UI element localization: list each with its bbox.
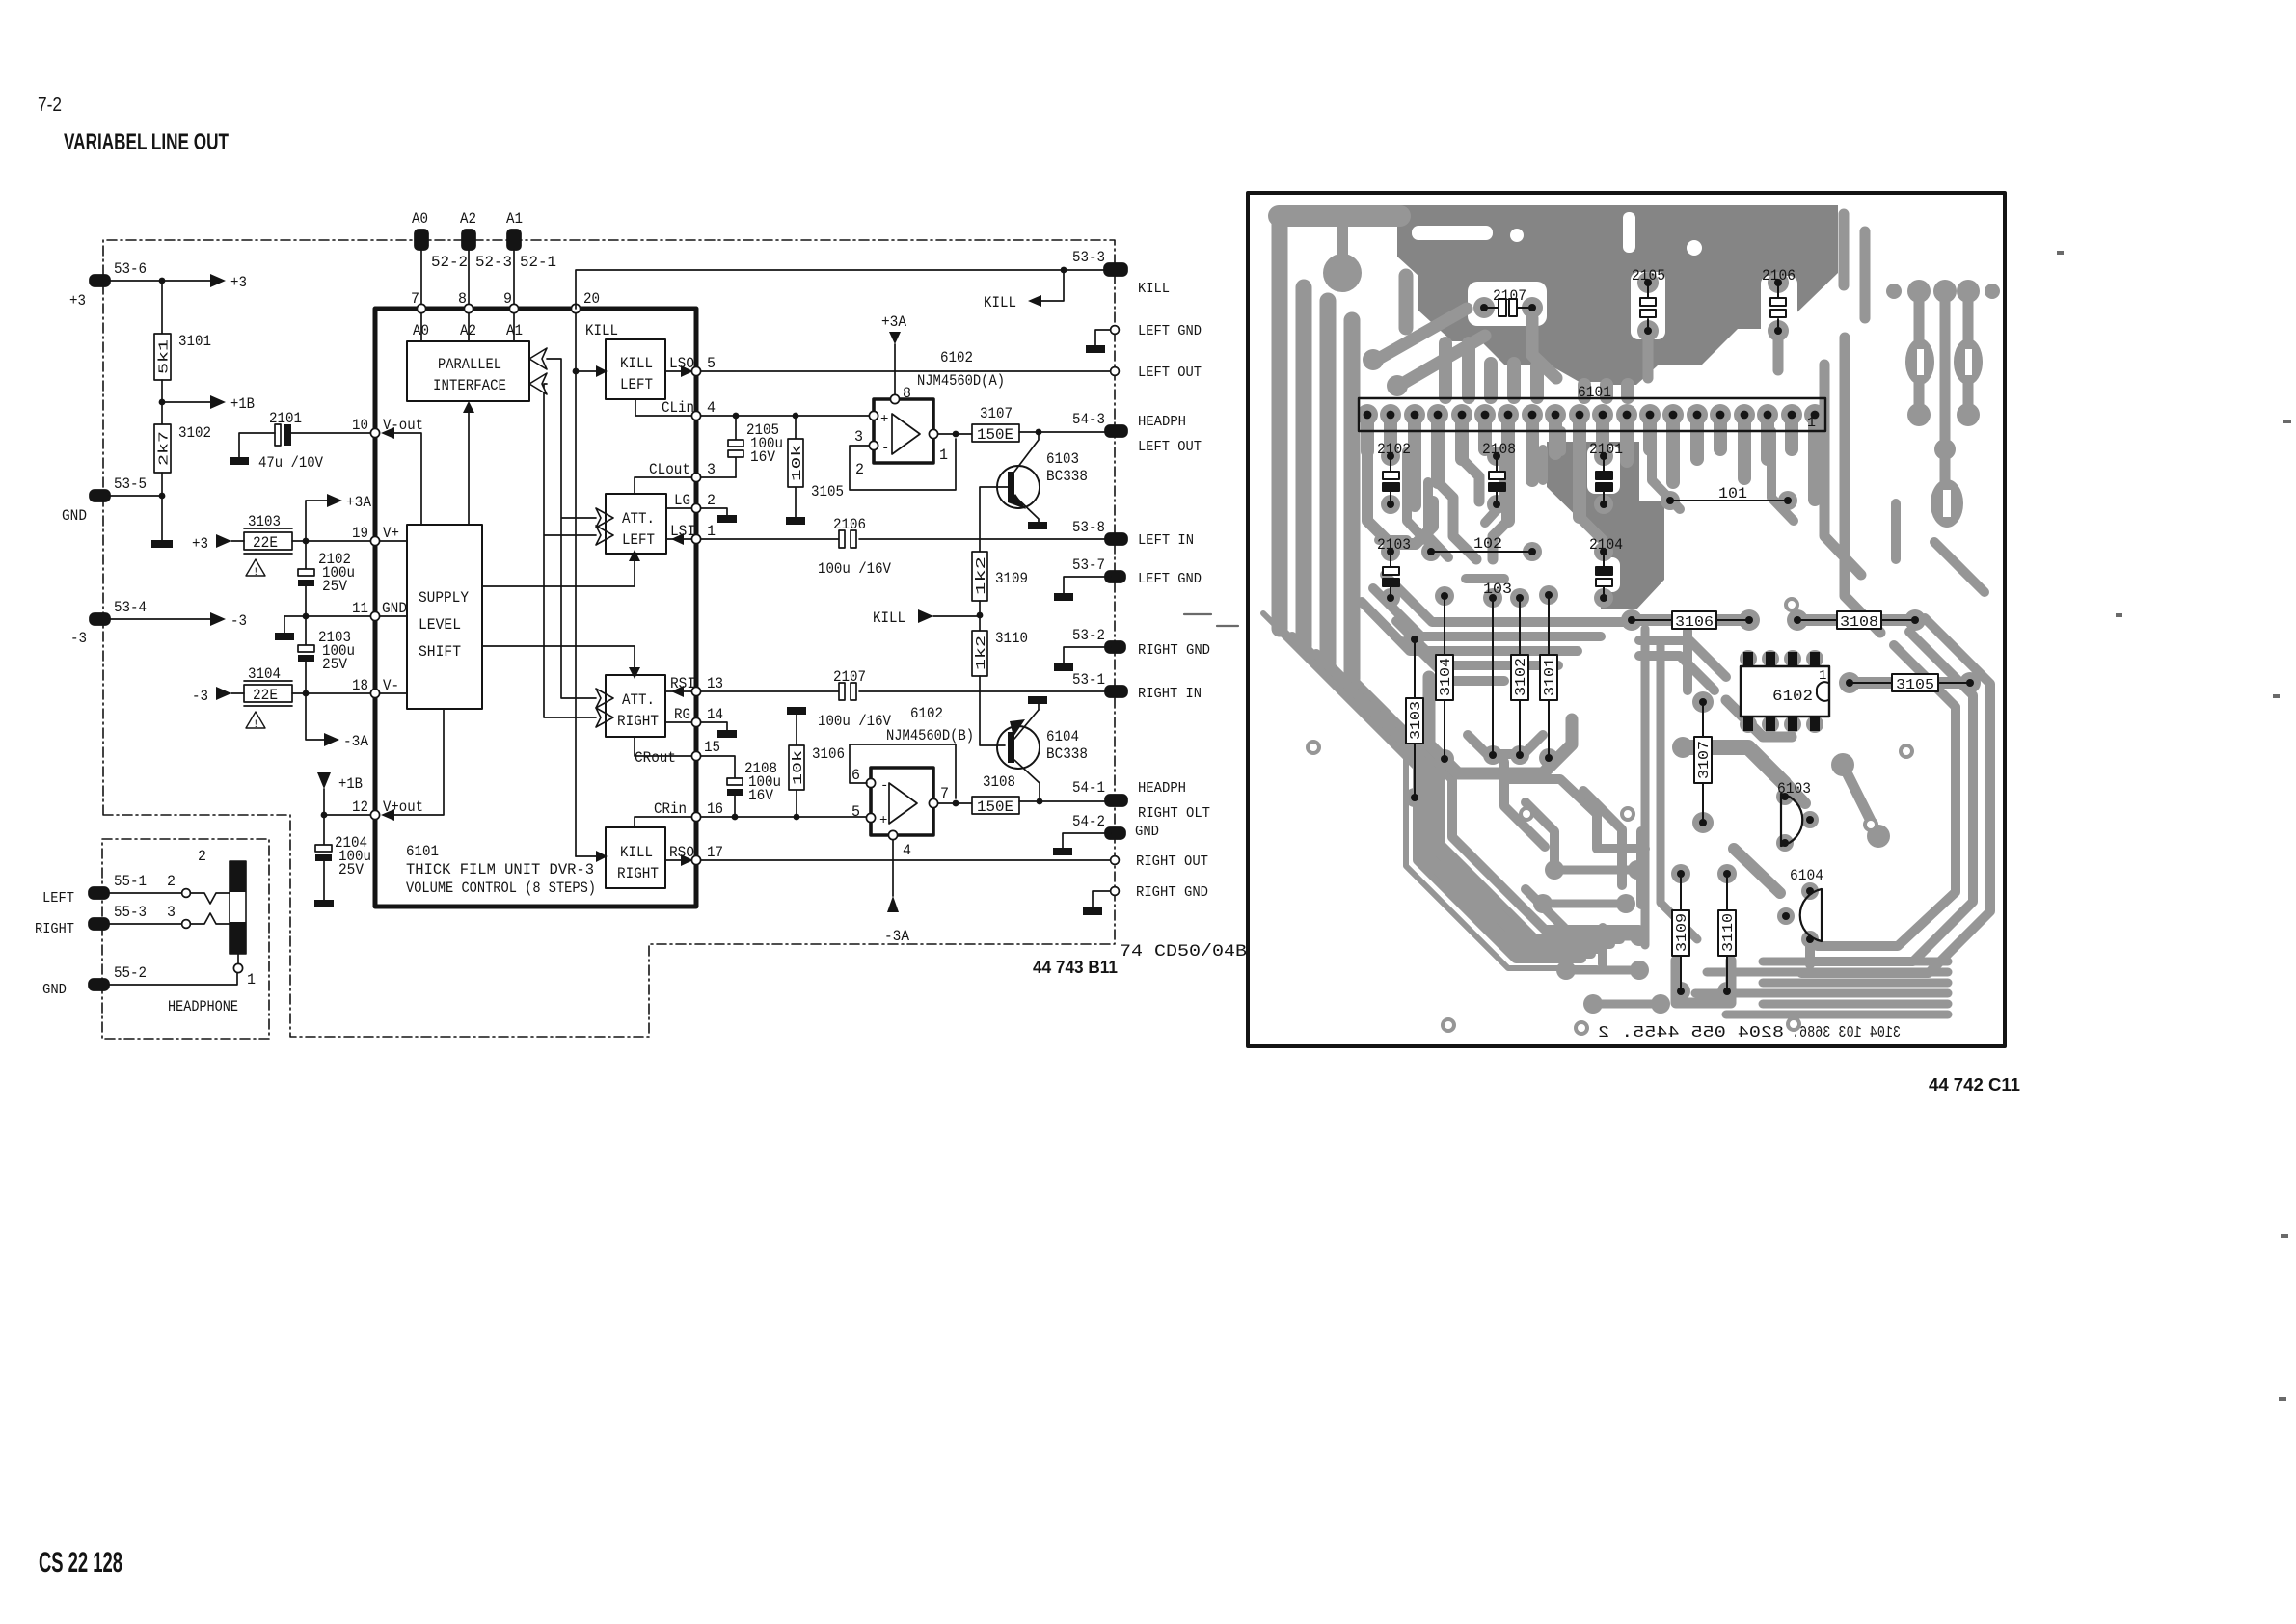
svg-text:+3A: +3A <box>346 494 372 511</box>
svg-text:3106: 3106 <box>1675 614 1714 631</box>
wire: pcb top band <box>1279 205 1400 227</box>
svg-text:HEADPH: HEADPH <box>1138 415 1186 430</box>
wire SLS to att right <box>482 646 640 679</box>
IC 6101 designator text <box>406 843 596 897</box>
connector pad 54-3 <box>1072 411 1127 437</box>
wire: pcb bottom hatch <box>1695 961 1948 1015</box>
capacitor 2102 <box>298 541 355 616</box>
connector pad 53-2 with ground <box>1054 627 1125 671</box>
capacitor 2108 <box>701 756 781 817</box>
wire 2101 to ground <box>239 433 275 457</box>
resistor 3105 (10k) <box>788 416 844 517</box>
svg-text:3104: 3104 <box>1438 658 1454 696</box>
parallel interface box <box>407 341 529 401</box>
svg-text:44 743 B11: 44 743 B11 <box>1033 958 1118 977</box>
svg-text:102: 102 <box>1473 535 1502 553</box>
pin 13 RSI <box>665 675 723 697</box>
svg-text:12: 12 <box>352 798 368 816</box>
op-amp 6102A <box>854 349 1005 478</box>
net label HEADPH LEFT OUT <box>1138 415 1202 455</box>
svg-text:LEFT OUT: LEFT OUT <box>1138 365 1202 381</box>
ground <box>314 900 334 907</box>
svg-text:53-7: 53-7 <box>1072 556 1105 574</box>
svg-text:V+: V+ <box>383 525 399 542</box>
svg-text:+3: +3 <box>230 274 247 291</box>
pin 14 RG <box>666 706 723 727</box>
wire: pcb staircase to 2107 <box>1375 309 1467 361</box>
svg-text:6102: 6102 <box>940 349 973 366</box>
wire: pcb left edge thin <box>1263 613 1597 968</box>
svg-text:1: 1 <box>247 971 256 988</box>
svg-text:8: 8 <box>903 385 911 402</box>
svg-text:52-2: 52-2 <box>431 254 468 271</box>
svg-text:6103: 6103 <box>1046 450 1079 468</box>
svg-text:25V: 25V <box>338 861 365 879</box>
svg-text:5: 5 <box>707 355 716 372</box>
svg-text:3102: 3102 <box>178 424 211 442</box>
capacitor 2106 <box>818 516 892 578</box>
svg-text:52-1: 52-1 <box>520 254 556 271</box>
resistor 3102 <box>154 424 211 473</box>
transistor 6103 <box>980 432 1088 552</box>
svg-text:-3A: -3A <box>884 928 910 945</box>
att right box <box>606 675 665 737</box>
svg-text:GND: GND <box>62 507 87 525</box>
wire: pcb dark plane top <box>1397 205 1838 385</box>
headphone dash-dot box <box>102 839 269 1039</box>
svg-text:KILL: KILL <box>1138 282 1170 297</box>
wire junction to resistor 3101 <box>161 281 163 334</box>
ground above 6104 <box>1028 696 1047 710</box>
svg-text:55-1: 55-1 <box>114 873 147 890</box>
transistor 6104 (pcb) <box>1782 867 1823 943</box>
pin RIGHT GND with ground <box>1083 885 1208 915</box>
svg-text:CS 22 128: CS 22 128 <box>39 1547 122 1579</box>
wire: pcb left stripe 3 <box>1320 301 1337 663</box>
svg-text:2: 2 <box>198 848 206 865</box>
ground <box>786 517 805 525</box>
capacitor 2104 <box>315 815 371 900</box>
svg-text:6101: 6101 <box>406 843 439 860</box>
wire op-amp A feedback <box>850 431 959 490</box>
svg-text:7: 7 <box>940 785 949 802</box>
supply level shift box <box>407 525 482 709</box>
wire op-amp B pin 4 to -3A <box>884 840 910 945</box>
wire LG to ground <box>701 508 727 515</box>
svg-text:1: 1 <box>707 523 716 540</box>
wire: pcb mirrored etch text <box>1598 1024 1901 1042</box>
wire: pcb 6101 pads row <box>1357 404 1825 425</box>
svg-text:BC338: BC338 <box>1046 745 1088 763</box>
wire: pcb q4 upper threads <box>1639 640 1726 677</box>
connector pad 53-1 <box>1072 671 1127 697</box>
svg-text:19: 19 <box>352 525 368 542</box>
svg-text:10k: 10k <box>791 750 806 785</box>
wire: pcb connector stubs <box>1367 415 1815 521</box>
resistor 3104 (22E fusible) <box>244 665 292 731</box>
svg-text:150E: 150E <box>977 426 1013 444</box>
pin 7 <box>411 290 429 341</box>
svg-text:3105: 3105 <box>811 483 844 501</box>
svg-text:3101: 3101 <box>178 333 211 350</box>
pin 4 CLin <box>635 399 716 420</box>
svg-text:17: 17 <box>707 844 723 861</box>
wire 55-1 to jack tip contact <box>108 873 230 904</box>
svg-text:100u /16V: 100u /16V <box>818 560 892 578</box>
wire: pcb mid right rings <box>1504 779 1645 849</box>
svg-text:2k7: 2k7 <box>157 431 173 466</box>
svg-text:53-5: 53-5 <box>114 475 147 493</box>
svg-text:3107: 3107 <box>980 405 1013 422</box>
pin LEFT OUT <box>1111 365 1202 381</box>
svg-text:RIGHT IN: RIGHT IN <box>1138 687 1202 702</box>
pin 3 CLout <box>635 461 716 494</box>
wire 53-6 to +3 arrow <box>109 274 247 291</box>
wire 55-2 to jack sleeve <box>109 973 237 985</box>
svg-text:100u /16V: 100u /16V <box>818 713 892 730</box>
svg-text:INTERFACE: INTERFACE <box>433 377 506 394</box>
svg-text:2: 2 <box>167 873 176 890</box>
connector pad 55-3 <box>35 904 147 937</box>
svg-text:47u /10V: 47u /10V <box>258 454 324 472</box>
svg-text:25V: 25V <box>322 656 348 673</box>
pin 12 V+out <box>352 709 444 821</box>
wire 3101 to +1B arrow <box>159 380 255 424</box>
wire: pcb dumbbells <box>1543 870 1661 1004</box>
svg-text:3110: 3110 <box>1720 913 1737 952</box>
capacitor 2107 <box>818 668 892 730</box>
ground <box>151 540 173 548</box>
wire SLS to att left <box>482 550 640 586</box>
svg-text:GND: GND <box>382 600 407 617</box>
svg-text:74 CD50/04B: 74 CD50/04B <box>1120 942 1247 961</box>
wire op-amp A output <box>938 433 972 435</box>
resistor 3109 (1k2) <box>972 552 1028 601</box>
svg-text:RIGHT OLT: RIGHT OLT <box>1138 806 1210 822</box>
svg-text:10k: 10k <box>790 445 805 481</box>
-3 arrow into 3104 <box>192 687 244 705</box>
wire: pcb q4 left verticals <box>1641 629 1650 945</box>
resistor 3107 (pcb) <box>1694 698 1713 826</box>
pin 11 GND <box>352 600 407 621</box>
svg-text:25V: 25V <box>322 578 348 595</box>
svg-text:3107: 3107 <box>1696 741 1713 779</box>
wire: pcb via holes <box>1308 599 1912 1034</box>
capacitor 2106 (pcb) <box>1762 267 1796 335</box>
pin 5 LSO <box>665 355 716 377</box>
svg-text:55-2: 55-2 <box>114 964 147 982</box>
svg-text:15: 15 <box>704 739 720 756</box>
wire link 102 (pcb) <box>1427 535 1536 555</box>
capacitor 2103 (pcb) <box>1377 536 1411 602</box>
svg-text:LG: LG <box>674 492 690 509</box>
PCB_GRAY <box>1263 205 2000 1042</box>
svg-text:LEFT GND: LEFT GND <box>1138 324 1202 339</box>
svg-text:LEFT OUT: LEFT OUT <box>1138 440 1202 455</box>
capacitor 2107 (pcb) <box>1480 287 1536 316</box>
capacitor 2108 (pcb) <box>1482 441 1516 508</box>
svg-text:!: ! <box>253 567 259 579</box>
svg-text:4: 4 <box>707 399 716 417</box>
pin 8 <box>458 290 476 341</box>
wire: pcb filler traces <box>1379 431 1985 964</box>
svg-text:LEFT: LEFT <box>42 891 74 907</box>
svg-text:1: 1 <box>939 447 948 464</box>
svg-text:RIGHT: RIGHT <box>617 713 659 730</box>
svg-text:-3: -3 <box>192 688 208 705</box>
pin 17 RSO <box>665 844 723 866</box>
resistor 3107 (150E) <box>972 405 1019 444</box>
svg-text:3105: 3105 <box>1896 677 1934 693</box>
svg-text:!: ! <box>253 719 259 731</box>
capacitor 2102 (pcb) <box>1377 441 1411 508</box>
wire 55-3 to jack ring contact <box>108 904 230 928</box>
wire LSO to LEFT OUT <box>701 370 1111 372</box>
thick film unit 6101 box <box>375 309 696 907</box>
svg-text:53-6: 53-6 <box>114 260 147 278</box>
connector pad 55-2 <box>42 964 147 998</box>
wire LSI to LEFT IN <box>701 538 1105 540</box>
PCB_BLACK <box>1359 267 2020 1095</box>
resistor 3104 (pcb) <box>1436 592 1454 763</box>
svg-text:+3A: +3A <box>881 313 907 331</box>
wire: pcb right decorative cluster <box>1919 291 1968 501</box>
wire node to +3A arrow <box>306 494 372 541</box>
pin 15 CRout <box>635 737 720 767</box>
wire: pcb horseshoe around 2102 <box>1367 449 1433 544</box>
svg-text:22E: 22E <box>253 687 278 704</box>
svg-text:THICK FILM UNIT DVR-3: THICK FILM UNIT DVR-3 <box>406 861 594 879</box>
svg-text:3: 3 <box>707 461 716 478</box>
wire: outer dash-dot boundary <box>103 240 1115 1037</box>
svg-text:53-8: 53-8 <box>1072 519 1105 536</box>
pin 10 V-out <box>352 417 423 525</box>
wire 2101 to pin 10 <box>291 432 371 434</box>
resistor 3101 <box>154 333 211 380</box>
wire pin 11 GND row <box>284 613 371 633</box>
svg-text:KILL: KILL <box>873 609 905 627</box>
resistor 3108 (150E) <box>972 773 1019 816</box>
svg-text:LEVEL: LEVEL <box>419 616 461 634</box>
pin 9 <box>503 290 523 341</box>
svg-text:150E: 150E <box>977 798 1013 816</box>
svg-text:2106: 2106 <box>833 516 866 533</box>
svg-text:3108: 3108 <box>1840 614 1878 631</box>
svg-text:-3A: -3A <box>343 733 369 750</box>
svg-text:SHIFT: SHIFT <box>419 643 461 661</box>
svg-text:3: 3 <box>167 904 176 921</box>
wire 3103 to pin 19 <box>292 538 371 545</box>
resistor 3108 (pcb) <box>1794 611 1919 631</box>
connector pad 53-8 <box>1072 519 1127 545</box>
svg-text:A1: A1 <box>506 210 523 228</box>
resistor 3109 (pcb) <box>1672 870 1690 995</box>
svg-text:3109: 3109 <box>1674 913 1690 952</box>
svg-text:11: 11 <box>352 600 368 617</box>
wire: pcb U under 3109 3110 <box>1676 961 1731 1003</box>
svg-text:ATT.: ATT. <box>622 510 655 528</box>
connector pad 53-3 <box>1072 249 1127 276</box>
svg-text:+3: +3 <box>192 535 208 553</box>
svg-text:RG: RG <box>674 706 690 723</box>
svg-text:22E: 22E <box>253 534 278 552</box>
kill right box <box>606 827 665 888</box>
svg-text:-: - <box>881 441 889 456</box>
capacitor 2101 <box>258 410 324 472</box>
svg-text:53-2: 53-2 <box>1072 627 1105 644</box>
pin 2 LG <box>666 492 716 513</box>
PAGE_TEXTS <box>38 95 229 1579</box>
svg-text:6104: 6104 <box>1790 867 1823 884</box>
svg-text:5k1: 5k1 <box>157 339 173 374</box>
connector pad 54-1 <box>1072 779 1127 806</box>
svg-text:6104: 6104 <box>1046 728 1079 745</box>
connector 6101 (pcb) <box>1359 384 1825 431</box>
transistor 6103 (pcb) <box>1777 780 1814 847</box>
svg-text:6: 6 <box>851 767 860 784</box>
svg-text:GND: GND <box>42 983 67 998</box>
svg-text:3104 103 3686.: 3104 103 3686. <box>1792 1024 1901 1042</box>
svg-text:LEFT: LEFT <box>622 531 655 549</box>
svg-text:54-3: 54-3 <box>1072 411 1105 428</box>
svg-text:RIGHT: RIGHT <box>35 922 74 937</box>
wire 3107 to pad 54-3 <box>1019 429 1105 436</box>
svg-text:KILL: KILL <box>620 844 653 861</box>
resistor 3103 (22E fusible) <box>244 513 292 579</box>
wire CRin to op-amp B <box>701 814 867 821</box>
svg-text:+1B: +1B <box>338 775 363 793</box>
+1B supply triangle <box>317 772 363 815</box>
wire 3102 down to 53-5 node <box>161 473 163 496</box>
svg-text:3109: 3109 <box>995 570 1028 587</box>
svg-text:3102: 3102 <box>1513 658 1529 696</box>
op-amp 6102B <box>851 705 974 859</box>
svg-text:1k2: 1k2 <box>974 636 989 670</box>
svg-text:2: 2 <box>707 492 716 509</box>
connector pad A2 <box>460 210 512 305</box>
wire: pcb mid horizontal bundle <box>1385 575 1628 622</box>
svg-text:13: 13 <box>707 675 723 692</box>
resistor 3110 (1k2) <box>972 630 1028 676</box>
svg-text:3106: 3106 <box>812 745 845 763</box>
wire +1B node to pin 12 <box>321 812 371 819</box>
svg-text:20: 20 <box>583 290 600 308</box>
connector pad A0 <box>412 210 468 305</box>
wire link 101 (pcb) <box>1666 485 1792 504</box>
wire: pcb dark plane below connector <box>1547 442 1664 609</box>
wire: pcb sweep diagonals <box>1280 629 1581 959</box>
wire: pcb gray under 3106 3108 3105 <box>1632 614 1749 626</box>
wire RSI to RIGHT IN <box>701 690 1105 692</box>
wire CLin to op-amp A <box>701 413 869 420</box>
+3 arrow into 3103 <box>192 534 244 553</box>
kill left box <box>606 339 665 399</box>
wire op-amp B feedback <box>850 744 959 806</box>
pin 20 KILL <box>571 290 618 339</box>
svg-text:2107: 2107 <box>833 668 866 686</box>
svg-text:RIGHT OUT: RIGHT OUT <box>1136 854 1208 870</box>
svg-text:+3: +3 <box>69 292 86 310</box>
svg-text:+: + <box>879 813 887 828</box>
wire: pcb horseshoe around pad row <box>1429 677 1572 773</box>
wire link 103 (pcb) <box>1483 581 1512 759</box>
svg-text:3101: 3101 <box>1542 658 1558 696</box>
connector pad A1 <box>506 210 556 305</box>
svg-text:CLin: CLin <box>662 399 694 417</box>
wire: pcb component pads <box>1381 272 1981 1001</box>
svg-text:-3: -3 <box>70 630 87 647</box>
wire 3108 to pad 54-1 <box>1019 798 1105 805</box>
svg-text:3110: 3110 <box>995 630 1028 647</box>
svg-text:7-2: 7-2 <box>38 95 62 116</box>
svg-text:-: - <box>880 778 888 794</box>
wire RG to ground <box>701 722 727 730</box>
ground <box>230 457 249 465</box>
svg-text:RIGHT: RIGHT <box>617 865 659 882</box>
svg-text:RIGHT GND: RIGHT GND <box>1138 643 1210 659</box>
wire: pcb left stripe 4 <box>1344 320 1361 679</box>
wire 53-5 to node <box>109 493 165 500</box>
svg-text:5: 5 <box>851 803 860 821</box>
svg-text:VOLUME CONTROL (8 STEPS): VOLUME CONTROL (8 STEPS) <box>406 880 596 897</box>
svg-text:53-1: 53-1 <box>1072 671 1105 689</box>
att left box <box>606 494 666 554</box>
wire: pcb right top verticals <box>1839 214 1850 285</box>
svg-text:V-: V- <box>383 677 399 694</box>
resistor 3102 (pcb) <box>1511 594 1529 759</box>
pin 16 CRin <box>635 800 723 827</box>
svg-text:14: 14 <box>707 706 723 723</box>
wire CLout to 2105 <box>701 476 736 478</box>
svg-text:HEADPHONE: HEADPHONE <box>168 998 238 1015</box>
wire: pcb left stripe 1 <box>1272 224 1288 629</box>
wire 53-4 to -3 arrow <box>109 612 247 630</box>
svg-text:BC338: BC338 <box>1046 468 1088 485</box>
svg-text:55-3: 55-3 <box>114 904 147 921</box>
wire RSO to RIGHT OUT pin <box>701 856 1119 865</box>
svg-text:53-3: 53-3 <box>1072 249 1105 266</box>
wire node to -3A arrow <box>306 693 369 750</box>
capacitor 2101 (pcb) <box>1589 441 1623 508</box>
svg-text:16: 16 <box>707 800 723 818</box>
wire KILL arrow to resistor node <box>873 601 983 631</box>
svg-text:+: + <box>880 412 888 427</box>
pin 1 LSI <box>666 523 716 545</box>
wire: pcb comb above connector <box>1445 343 1628 397</box>
svg-text:CRin: CRin <box>654 800 687 818</box>
headphone jack plug symbol <box>230 861 256 988</box>
svg-text:KILL: KILL <box>620 355 653 372</box>
ground <box>1028 522 1047 529</box>
pin LEFT GND with ground <box>1086 324 1202 353</box>
svg-text:54-1: 54-1 <box>1072 779 1105 797</box>
svg-text:GND: GND <box>1135 825 1159 840</box>
connector pad 53-6 <box>69 260 147 310</box>
wire KILL net top <box>576 267 1105 311</box>
ground <box>717 730 737 738</box>
svg-text:CLout: CLout <box>649 461 690 478</box>
svg-text:8204 055 4455. 2: 8204 055 4455. 2 <box>1598 1024 1784 1042</box>
svg-text:HEADPH: HEADPH <box>1138 781 1186 797</box>
ground <box>717 515 737 523</box>
svg-text:18: 18 <box>352 677 368 694</box>
svg-text:LEFT IN: LEFT IN <box>1138 533 1194 549</box>
svg-text:-3: -3 <box>230 612 247 630</box>
pin 18 V- <box>352 677 407 698</box>
connector pad 54-2 with ground <box>1053 813 1125 855</box>
resistor 3106 (pcb) <box>1628 611 1753 631</box>
svg-text:3103: 3103 <box>1408 701 1424 740</box>
